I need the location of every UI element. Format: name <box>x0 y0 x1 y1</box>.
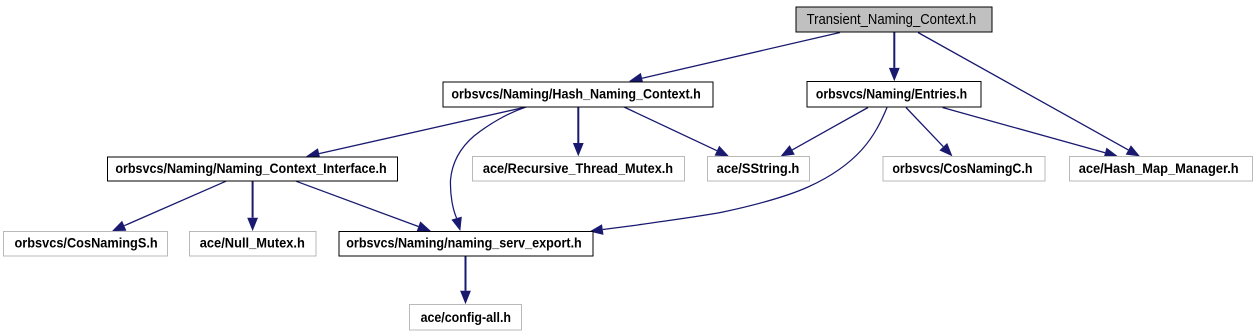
node ace/SString.h <box>707 157 809 182</box>
edge Transient_Naming_Context.h -> Hash_Naming_Context.h <box>629 33 840 84</box>
edge Naming_Context_Interface.h -> CosNamingS.h <box>112 181 226 231</box>
svg-text:ace/config-all.h: ace/config-all.h <box>421 310 511 325</box>
edge Naming_Context_Interface.h -> Null_Mutex.h <box>247 181 258 231</box>
node orbsvcs/Naming/Naming_Context_Interface.h <box>108 157 398 181</box>
edge Entries.h -> CosNamingC.h <box>906 108 953 157</box>
node ace/Null_Mutex.h <box>190 231 317 256</box>
edge Hash_Naming_Context.h -> naming_serv_export.h (curved) <box>450 107 526 231</box>
edge Entries.h -> SString.h <box>781 108 869 157</box>
node orbsvcs/Naming/naming_serv_export.h <box>339 231 593 256</box>
edge Transient_Naming_Context.h -> Hash_Map_Manager.h <box>918 33 1140 157</box>
edge Hash_Naming_Context.h -> Recursive_Thread_Mutex.h <box>573 107 584 156</box>
node orbsvcs/CosNamingS.h <box>4 231 168 256</box>
svg-text:orbsvcs/Naming/Hash_Naming_Con: orbsvcs/Naming/Hash_Naming_Context.h <box>451 87 700 102</box>
svg-text:Transient_Naming_Context.h: Transient_Naming_Context.h <box>807 11 977 28</box>
svg-text:orbsvcs/Naming/Entries.h: orbsvcs/Naming/Entries.h <box>816 87 967 102</box>
svg-text:orbsvcs/Naming/naming_serv_exp: orbsvcs/Naming/naming_serv_export.h <box>346 236 582 251</box>
edge Hash_Naming_Context.h -> Naming_Context_Interface.h <box>306 107 526 159</box>
edge Hash_Naming_Context.h -> SString.h <box>624 107 729 156</box>
node Transient_Naming_Context.h <box>796 7 992 32</box>
edge Transient_Naming_Context.h -> Entries.h <box>889 33 900 82</box>
svg-text:orbsvcs/Naming/Naming_Context_: orbsvcs/Naming/Naming_Context_Interface.… <box>115 161 386 176</box>
edge Entries.h -> Hash_Map_Manager.h <box>943 108 1119 159</box>
svg-text:ace/Null_Mutex.h: ace/Null_Mutex.h <box>200 236 305 251</box>
node orbsvcs/Naming/Entries.h <box>807 82 981 108</box>
edge Entries.h -> naming_serv_export.h (curved) <box>590 108 888 235</box>
edge Naming_Context_Interface.h -> naming_serv_export.h <box>296 181 431 231</box>
svg-text:ace/SString.h: ace/SString.h <box>717 161 800 176</box>
node orbsvcs/CosNamingC.h <box>883 157 1045 182</box>
node ace/Hash_Map_Manager.h <box>1069 157 1252 182</box>
svg-text:ace/Hash_Map_Manager.h: ace/Hash_Map_Manager.h <box>1079 161 1239 176</box>
svg-text:orbsvcs/CosNamingS.h: orbsvcs/CosNamingS.h <box>15 236 158 251</box>
node ace/Recursive_Thread_Mutex.h <box>472 157 684 182</box>
svg-text:orbsvcs/CosNamingC.h: orbsvcs/CosNamingC.h <box>892 161 1032 176</box>
node ace/config-all.h <box>409 304 521 329</box>
node orbsvcs/Naming/Hash_Naming_Context.h <box>443 82 713 107</box>
svg-text:ace/Recursive_Thread_Mutex.h: ace/Recursive_Thread_Mutex.h <box>483 161 673 176</box>
edge naming_serv_export.h -> config-all.h <box>460 256 471 304</box>
